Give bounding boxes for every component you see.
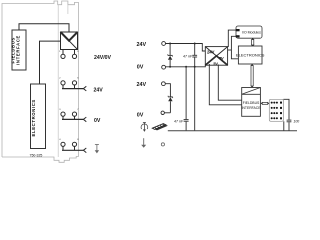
- capacitor C2 47nF to rail: [174, 67, 189, 131]
- data arrows I/O modules-electronics: [252, 39, 254, 45]
- svg-text:47 nF: 47 nF: [183, 54, 193, 58]
- svg-text:4: 4: [59, 139, 61, 141]
- terminal row 1 (pins 1,5): [61, 50, 77, 59]
- earth symbol (circle with arrow): [141, 123, 148, 130]
- svg-text:0V: 0V: [94, 118, 101, 124]
- svg-text:5: 5: [77, 51, 79, 53]
- wire 24V line: [166, 44, 206, 52]
- module joint line: [67, 5, 69, 14]
- legend circle: [161, 143, 164, 146]
- fieldbus interface box (right) with isolation: [241, 88, 261, 117]
- capacitor C1 47nF: [183, 44, 197, 68]
- wire 0V line: [166, 65, 206, 67]
- svg-text:750-325: 750-325: [30, 153, 43, 157]
- wire fieldbus box to converter: [19, 24, 69, 32]
- svg-text:6: 6: [77, 78, 79, 80]
- earth arrow row4: [95, 145, 99, 151]
- wire converter to I/O modules pin1: [228, 30, 236, 46]
- I/O Modules box: [236, 26, 262, 38]
- svg-text:100 nF: 100 nF: [293, 120, 300, 124]
- DIN rail icon (hatched): [152, 124, 168, 131]
- svg-text:5V: 5V: [213, 61, 218, 66]
- terminal row 4 (pins 4,8): [61, 142, 84, 150]
- suppressor diode Z1: [168, 44, 173, 68]
- legend down arrow: [143, 138, 145, 145]
- svg-text:INTERFACE: INTERFACE: [16, 35, 21, 65]
- junction dots: [169, 43, 196, 68]
- converter U1 (system supply): [61, 32, 78, 50]
- power jumper contact row 2: [83, 86, 86, 91]
- wire converter 5V to pin2 and electronics: [228, 49, 232, 51]
- svg-text:47 nF: 47 nF: [174, 120, 184, 124]
- wire 24V jumper: [165, 84, 170, 97]
- suppressor diode Z2: [168, 96, 173, 113]
- capacitor C3 100nF shield: [283, 99, 305, 130]
- svg-text:0V: 0V: [137, 65, 144, 71]
- wire 0V jumper: [164, 112, 170, 114]
- electronics box (right): [236, 46, 265, 64]
- svg-text:24V/0V: 24V/0V: [94, 55, 112, 61]
- svg-text:7: 7: [77, 109, 79, 111]
- wire connector bottom to rail: [283, 121, 285, 130]
- wire converter to electronics: [40, 41, 61, 84]
- svg-text:2: 2: [59, 78, 61, 80]
- svg-text:I/O Modules: I/O Modules: [242, 31, 261, 35]
- terminal row 3 (pins 3,7): [61, 112, 84, 119]
- converter U2 24V->5V: [205, 47, 227, 66]
- wire 0V to rail (plain): [194, 67, 196, 131]
- terminal circle 24V: [162, 42, 166, 46]
- terminal column divider left: [57, 5, 59, 157]
- svg-text:24V: 24V: [137, 82, 147, 88]
- svg-text:INTERFACE: INTERFACE: [241, 106, 261, 110]
- device outline (coupler side view): [2, 1, 78, 162]
- data arrows electronics-fieldbus interface: [251, 65, 253, 86]
- svg-text:ELECTRONICS: ELECTRONICS: [31, 99, 36, 136]
- double arrow fieldbus to connector: [262, 102, 268, 104]
- svg-text:5V: 5V: [219, 56, 224, 61]
- electronics box (left): [31, 84, 46, 149]
- svg-text:ELECTRONICS: ELECTRONICS: [236, 53, 265, 58]
- power jumper contact row 3: [83, 117, 86, 122]
- wires converter 5V to fieldbus interface: [209, 64, 241, 105]
- terminal circle 24V jumper: [162, 82, 166, 86]
- terminal row 2 (pins 2,6): [61, 81, 84, 89]
- svg-text:24V: 24V: [94, 88, 104, 94]
- svg-text:0V: 0V: [137, 113, 144, 119]
- fieldbus interface box (left): [10, 30, 26, 70]
- svg-text:1: 1: [59, 51, 61, 53]
- svg-text:FIELDBUS: FIELDBUS: [10, 37, 15, 64]
- terminal circle 0V jumper: [161, 111, 164, 114]
- svg-text:3: 3: [59, 109, 61, 111]
- svg-text:24V: 24V: [137, 42, 147, 48]
- power jumper contact row 4: [83, 148, 86, 153]
- terminal circle 0V: [162, 65, 166, 69]
- rail ground wire: [168, 130, 297, 132]
- svg-text:24V: 24V: [207, 50, 214, 55]
- fieldbus connector with pins: [269, 99, 283, 121]
- svg-text:FIELDBUS: FIELDBUS: [243, 101, 260, 105]
- svg-text:8: 8: [77, 139, 79, 141]
